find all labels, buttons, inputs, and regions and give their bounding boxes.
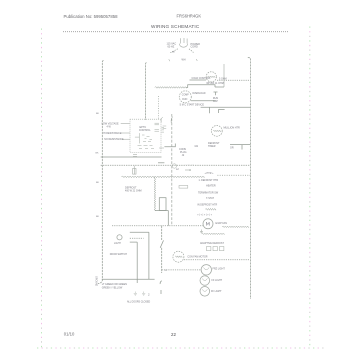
- condenser fan motor M3: [173, 251, 184, 262]
- svg-text:COMP: COMP: [182, 95, 189, 97]
- timer box: [159, 198, 166, 211]
- svg-text:ALL DOORS CLOSED: ALL DOORS CLOSED: [127, 300, 150, 303]
- ground G1: [134, 292, 137, 296]
- svg-text:1. DEFROST HTR: 1. DEFROST HTR: [199, 179, 219, 182]
- svg-text:60 HZ: 60 HZ: [168, 45, 175, 48]
- switch mark: [218, 110, 224, 113]
- node dot: [189, 169, 191, 171]
- wire y279.2: [102, 278, 155, 280]
- svg-text:ADAPTIVE DEFROST: ADAPTIVE DEFROST: [200, 242, 224, 245]
- wire step: [186, 85, 215, 88]
- svg-text:GROUND: GROUND: [95, 276, 97, 287]
- svg-text:LIGHT: LIGHT: [114, 243, 121, 245]
- svg-text:MULLION HTR: MULLION HTR: [224, 127, 240, 130]
- door switch S1: [117, 235, 122, 240]
- terminal circle E: [172, 164, 176, 168]
- connector hook 2: [171, 117, 173, 123]
- wire dotted vertical x158.6: [158, 96, 160, 120]
- svg-text:01/10: 01/10: [64, 332, 75, 337]
- svg-text:FF LIGHT: FF LIGHT: [212, 279, 223, 282]
- svg-text:OR: OR: [230, 146, 234, 149]
- component marks below box: [133, 155, 137, 157]
- wire vertical x148.9: [148, 232, 150, 279]
- wire riser x168.3: [167, 211, 169, 226]
- svg-text:CORD: CORD: [191, 46, 199, 49]
- wire vertical x137.2: [136, 242, 138, 283]
- wire y162.8 stub: [158, 162, 164, 164]
- wavy below motor: [201, 233, 224, 235]
- wire dotted heater right: [217, 174, 250, 176]
- svg-text:TERMINATOR SW: TERMINATOR SW: [198, 192, 219, 195]
- small zigzag: [205, 208, 216, 210]
- wire dashed y225.8: [112, 225, 203, 227]
- wire thermostat right dashed: [217, 79, 250, 81]
- svg-text:400 W 21 OHM: 400 W 21 OHM: [125, 189, 141, 192]
- svg-text:GN: GN: [195, 145, 199, 148]
- wire y107.3: [201, 106, 251, 108]
- wire riser x209.8: [209, 107, 211, 113]
- wire y165.3: [101, 164, 251, 166]
- tick x242: [241, 145, 243, 150]
- svg-text:HEATER: HEATER: [206, 184, 216, 187]
- wire y144.6: [230, 144, 250, 146]
- svg-text:HI RESISTANCE: HI RESISTANCE: [103, 132, 122, 135]
- svg-text:GREEN / YELLOW: GREEN / YELLOW: [102, 287, 123, 290]
- run capacitor C1: [214, 92, 218, 95]
- svg-text:COLD CONTROL: COLD CONTROL: [192, 77, 212, 80]
- svg-text:FRS6HR4GK: FRS6HR4GK: [177, 14, 202, 19]
- svg-text:CON FAN MOTOR: CON FAN MOTOR: [187, 255, 207, 258]
- board innards: [135, 123, 164, 148]
- switch slash: [160, 240, 163, 247]
- ground G2: [142, 292, 145, 296]
- control board U1 dashed box: [130, 119, 161, 152]
- wire dashed y259.8: [184, 259, 250, 261]
- wire thermostat left: [190, 79, 207, 81]
- svg-text:. . . . . . .: . . . . . . .: [186, 162, 195, 165]
- svg-text:WIRING SCHEMATIC: WIRING SCHEMATIC: [151, 24, 200, 29]
- hook bottom x161.7: [160, 281, 162, 284]
- svg-text:IN DEFROST HTR: IN DEFROST HTR: [197, 204, 217, 207]
- wire box bottom: [155, 210, 168, 212]
- power cord plug P1: [179, 38, 187, 47]
- heater wavy right: [222, 226, 249, 228]
- wire dashed vertical x171.8: [171, 114, 173, 225]
- svg-text:FF LIGHT: FF LIGHT: [211, 290, 222, 293]
- svg-text:FRZ LIGHT: FRZ LIGHT: [213, 267, 226, 270]
- header rule: [63, 31, 289, 33]
- wire right rail neutral: [248, 58, 251, 300]
- ground below motor: [200, 230, 203, 233]
- connector marks right of box: [163, 126, 167, 128]
- svg-text:4 W: 4 W: [107, 125, 112, 128]
- defrost heater element R2: [121, 176, 204, 178]
- wire lead mark left: [169, 59, 170, 61]
- wire y232.3: [130, 231, 149, 233]
- svg-text:EVAP FAN: EVAP FAN: [216, 222, 228, 225]
- mullion heater R1 dashed circle: [211, 125, 222, 136]
- wire cord right lead: [189, 49, 194, 53]
- compressor motor M1 dashed circle: [179, 91, 191, 103]
- svg-text:RUN: RUN: [182, 99, 187, 101]
- wire y100.7: [191, 100, 216, 102]
- connector J plug: [164, 144, 175, 147]
- svg-text:T-STAT: T-STAT: [206, 197, 214, 200]
- freezer light L1: [201, 265, 211, 275]
- svg-text:+ | + | + | + | +: + | + | + | + | +: [197, 213, 212, 216]
- thermostat TH1 circle: [206, 72, 216, 82]
- svg-text:22: 22: [171, 332, 176, 337]
- svg-text:OVERLOAD: OVERLOAD: [192, 92, 206, 95]
- tick x161: [160, 290, 162, 294]
- svg-text:S M C START DEVICE: S M C START DEVICE: [180, 104, 205, 107]
- svg-text:WH: WH: [182, 58, 186, 61]
- wire riser x224: [223, 64, 225, 87]
- wire cord left lead: [170, 49, 178, 53]
- wire compressor wavy lead: [155, 87, 187, 89]
- svg-text:CONTROL: CONTROL: [139, 129, 151, 132]
- svg-text:LT GREEN OR GREEN: LT GREEN OR GREEN: [102, 283, 127, 286]
- wire vertical x161.7 with switch: [161, 226, 163, 240]
- light L2: [200, 276, 210, 286]
- wire y242.1: [130, 241, 137, 243]
- wire lead mark right: [196, 59, 199, 61]
- connector hook 1: [161, 117, 163, 122]
- ADC connector boxes: [207, 247, 224, 251]
- wire y157: [101, 156, 162, 158]
- wire y238.3 dotted: [130, 237, 144, 239]
- svg-text:Publication No: 5995057858: Publication No: 5995057858: [64, 14, 119, 19]
- svg-text:TIMER: TIMER: [208, 145, 216, 148]
- wire left rail: [98, 61, 104, 284]
- wire mid vertical: [145, 63, 146, 121]
- svg-text:5 OHM: 5 OHM: [219, 77, 227, 80]
- evap fan motor M2: [203, 219, 213, 229]
- wire dashed y269.9: [162, 269, 201, 271]
- svg-text:DOOR SWITCH: DOOR SWITCH: [110, 253, 128, 256]
- svg-text:NO RESISTANCE: NO RESISTANCE: [104, 138, 124, 141]
- wire y87 stub: [215, 86, 224, 88]
- fuse F1: [133, 166, 136, 174]
- small connector box: [179, 186, 188, 189]
- light L3: [200, 287, 210, 297]
- svg-text:+ HTR +: + HTR +: [205, 172, 215, 175]
- heater vertical zigzag: [154, 177, 156, 211]
